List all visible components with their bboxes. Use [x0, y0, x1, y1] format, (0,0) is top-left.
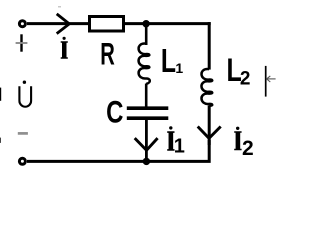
- terminal + (top-left): [19, 21, 25, 27]
- label minus: [18, 132, 28, 135]
- inductor L1: [139, 44, 150, 84]
- arrow current I: [57, 14, 70, 34]
- wire right branch: corner down to L2: [208, 22, 211, 70]
- arrow current I1: [135, 138, 158, 150]
- label U (voltage, dotted): [19, 81, 31, 107]
- wire from junction down to L1: [145, 24, 148, 45]
- label L2: [226, 53, 250, 89]
- inductor L2: [201, 69, 212, 106]
- cursor artifact (right edge): [266, 66, 276, 97]
- resistor R: [90, 17, 124, 32]
- bottom wire: [27, 140, 209, 161]
- wire top-left: [27, 22, 89, 25]
- left edge artifact 2: [0, 138, 1, 143]
- wire L1 to capacitor: [145, 84, 148, 108]
- capacitor C top plate: [127, 106, 169, 110]
- label I (current, dotted): [61, 37, 68, 59]
- terminal - (bottom-left): [19, 158, 25, 164]
- svg-text:R: R: [100, 36, 115, 72]
- left edge artifact (crop mark): [0, 88, 1, 101]
- wire top-middle to corner: [125, 22, 211, 25]
- svg-text:1: 1: [175, 60, 183, 76]
- svg-text:L: L: [161, 44, 176, 80]
- junction node (top): [142, 20, 149, 27]
- svg-text:2: 2: [242, 137, 254, 160]
- capacitor C bottom plate: [127, 116, 169, 120]
- svg-text:1: 1: [174, 136, 185, 158]
- label +: [16, 34, 28, 51]
- svg-text:C: C: [106, 94, 123, 129]
- label L1: [161, 44, 184, 80]
- arrow current I2: [198, 127, 221, 139]
- faint smudge top edge: [58, 6, 61, 8]
- label I1: [167, 126, 185, 157]
- label I2: [234, 127, 253, 160]
- svg-text:2: 2: [240, 68, 251, 89]
- junction node (bottom): [143, 158, 150, 165]
- wire below L2: [208, 105, 211, 145]
- wire below capacitor: [145, 120, 148, 161]
